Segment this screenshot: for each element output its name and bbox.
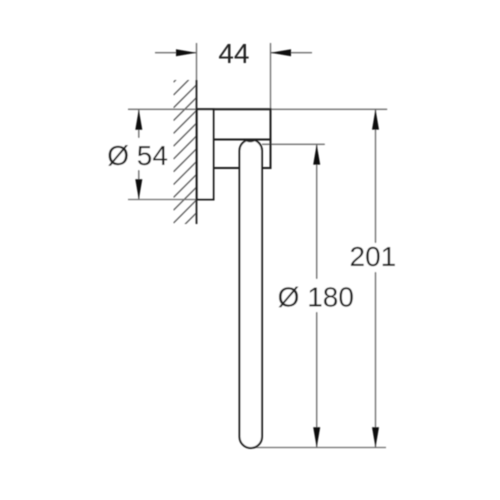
svg-text:201: 201 bbox=[350, 241, 397, 272]
svg-text:44: 44 bbox=[218, 38, 249, 69]
svg-text:Ø 180: Ø 180 bbox=[278, 281, 354, 312]
svg-text:Ø 54: Ø 54 bbox=[107, 140, 168, 171]
